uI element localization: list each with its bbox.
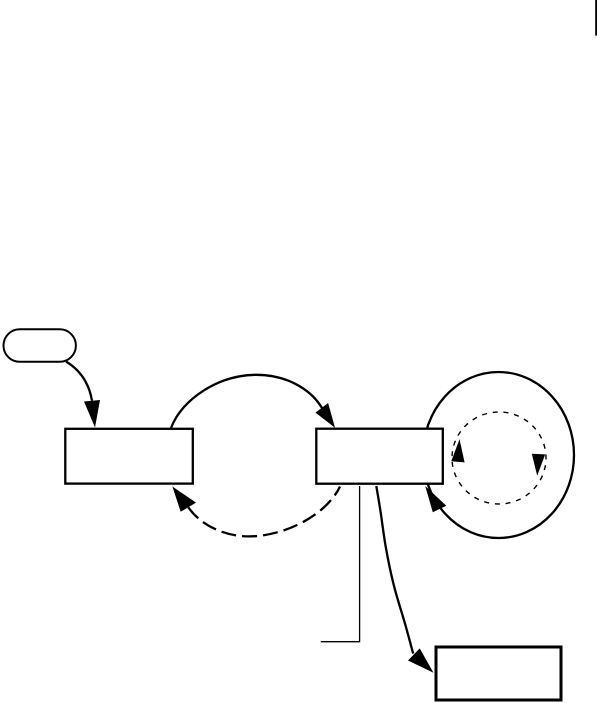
arrowhead into node C left edge xyxy=(408,648,434,672)
node B rectangle (drawn over big ellipse) xyxy=(316,429,443,484)
inner circle right arrowhead (pointing down) xyxy=(532,454,545,476)
node C rectangle xyxy=(436,647,561,700)
dashed bottom arc node B to node A xyxy=(188,487,340,537)
start pill node xyxy=(4,329,76,362)
arrow start pill to node A xyxy=(66,362,92,401)
arrowhead into node B top-left xyxy=(316,403,336,428)
node A rectangle xyxy=(65,429,193,484)
inner dashed circle (clockwise iteration) xyxy=(452,412,546,504)
page edge line top-right xyxy=(595,0,597,36)
arrowhead into node A top xyxy=(84,400,100,428)
curved arrow node B to node C xyxy=(376,486,413,654)
solid top arc node A to node B xyxy=(171,375,322,428)
inner circle left arrowhead (pointing up) xyxy=(451,439,464,462)
arrowhead of big ellipse into node B bottom-right xyxy=(425,486,446,512)
big ellipse self-loop around right node xyxy=(423,372,574,538)
arrowhead into node A bottom xyxy=(172,487,196,512)
thin L-shaped callout line from node B bottom xyxy=(321,486,360,642)
